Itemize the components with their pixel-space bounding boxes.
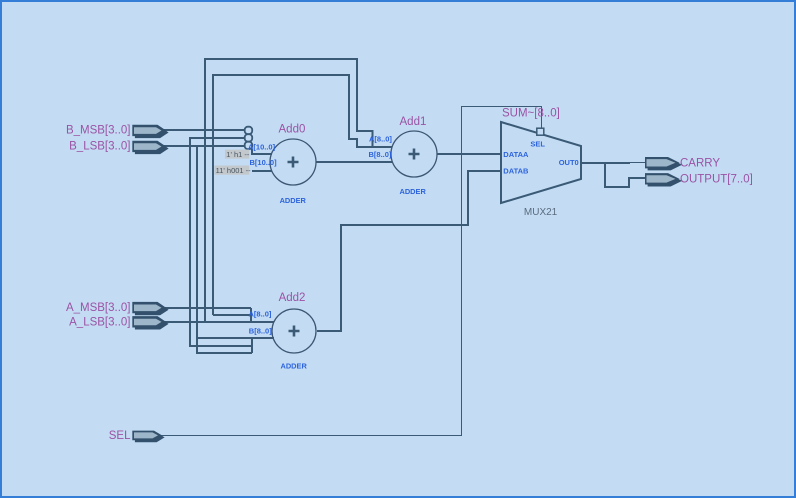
wire SEL net: [161, 107, 542, 436]
wire A_LSB bus / Add2 A port: [164, 321, 274, 323]
wire CARRY bit: [630, 162, 646, 164]
wire inner loop from A_MSB branch up and over to Add1 A: [213, 75, 357, 315]
wire A_MSB branch horizontal: [213, 314, 251, 316]
svg-text:A[10..0]: A[10..0]: [248, 143, 276, 152]
svg-text:Add1: Add1: [400, 116, 427, 128]
adder Add0 plus symbol: [288, 157, 299, 168]
svg-text:ADDER: ADDER: [280, 196, 307, 205]
svg-text:Add2: Add2: [279, 292, 306, 304]
svg-text:B[8..0]: B[8..0]: [369, 150, 392, 159]
node bus-merge bubble 2: [245, 134, 253, 141]
wire stub joining B-group into Add2 B port: [251, 338, 253, 353]
input pin B_MSB[3..0]: [66, 125, 169, 138]
mux select pin square: [537, 128, 544, 135]
mux U1 trapezoid body: [501, 122, 581, 203]
svg-text:SUM~[8..0]: SUM~[8..0]: [502, 107, 560, 119]
input pin SEL: [109, 430, 165, 442]
wire Add1 A port: [356, 146, 392, 148]
wire bubble2 branch down to Add2 B-group: [190, 138, 252, 346]
svg-text:SEL: SEL: [530, 139, 545, 148]
input pin B_LSB[3..0]: [69, 141, 168, 155]
svg-text:A_MSB[3..0]: A_MSB[3..0]: [66, 302, 131, 314]
output pin CARRY: [645, 157, 720, 170]
adder Add1 circle: [391, 131, 437, 177]
output pin OUTPUT[7..0]: [645, 173, 753, 186]
svg-text:OUT0: OUT0: [559, 158, 579, 167]
svg-text:A_LSB[3..0]: A_LSB[3..0]: [69, 316, 130, 328]
svg-text:OUTPUT[7..0]: OUTPUT[7..0]: [680, 173, 753, 185]
svg-text:1' h1 --: 1' h1 --: [226, 150, 250, 159]
wire Add1 output to MUX DATAA: [437, 153, 501, 155]
adder Add0 circle: [270, 139, 316, 185]
adder Add1 plus symbol: [409, 149, 420, 160]
wire MUX DATAB from Add2 output: [317, 171, 501, 331]
adder Add2: [249, 292, 317, 371]
svg-text:B[8..0]: B[8..0]: [249, 327, 272, 336]
wire Add0 B port constant: [252, 170, 272, 172]
svg-text:ADDER: ADDER: [400, 187, 427, 196]
wire stub joining A_MSB group into Add2 A wire: [250, 308, 252, 322]
svg-text:DATAA: DATAA: [503, 150, 529, 159]
wire bubble stack output to Add0 A port: [252, 149, 272, 154]
svg-text:DATAB: DATAB: [503, 167, 529, 176]
input pin A_LSB[3..0]: [69, 316, 168, 329]
adder Add2 plus symbol: [289, 326, 300, 337]
svg-text:B_LSB[3..0]: B_LSB[3..0]: [69, 141, 130, 153]
wire B_LSB bus to bubble3: [164, 145, 245, 147]
node bus-merge bubble 1: [245, 127, 253, 134]
node bus-join bubbles at Add0 A input: [245, 127, 253, 150]
svg-text:ADDER: ADDER: [281, 362, 308, 371]
svg-text:A[8..0]: A[8..0]: [369, 135, 392, 144]
svg-text:11' h001 --: 11' h001 --: [216, 166, 252, 175]
input pin A_MSB[3..0]: [66, 302, 169, 315]
constant 1'h1 label: [225, 150, 250, 159]
svg-text:SEL: SEL: [109, 430, 131, 442]
wire MUX OUT0 bus: [582, 162, 630, 164]
node bus-merge bubble 3: [245, 142, 253, 150]
wire B_LSB branch down (V_B) to Add2 B-group: [197, 146, 252, 353]
svg-text:CARRY: CARRY: [680, 157, 720, 169]
svg-text:B[10..0]: B[10..0]: [250, 158, 278, 167]
adder Add1: [369, 116, 438, 196]
wire Add2 B port: [197, 337, 274, 339]
wire B_MSB bus to bubble1: [164, 129, 245, 131]
wire outer loop from A bus up and over to Add1 A: [205, 59, 373, 322]
svg-text:A[8..0]: A[8..0]: [249, 310, 272, 319]
svg-text:MUX21: MUX21: [524, 207, 558, 218]
wire Add0 output to Add1 B port: [316, 161, 392, 163]
adder Add0: [248, 123, 316, 204]
mux MUX21: [501, 122, 581, 218]
wire OUTPUT branch: [605, 163, 646, 187]
wire A_MSB bus: [164, 307, 251, 309]
svg-text:B_MSB[3..0]: B_MSB[3..0]: [66, 125, 131, 137]
constant 11'h001 label: [215, 166, 252, 176]
adder Add2 circle: [272, 309, 316, 353]
svg-text:Add0: Add0: [279, 123, 306, 135]
